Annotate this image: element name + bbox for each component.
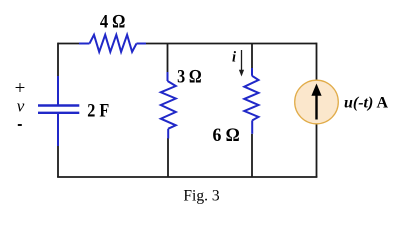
svg-text:i: i [232, 50, 236, 66]
wire 3ohm branch lower [167, 138, 169, 177]
wire right upper [316, 43, 318, 81]
wire 3ohm branch upper [167, 44, 169, 73]
current arrow i [239, 50, 244, 77]
svg-text:2 F: 2 F [87, 100, 109, 121]
wire right lower [316, 123, 318, 177]
resistor R2 3ohm [161, 72, 176, 139]
svg-text:3 Ω: 3 Ω [177, 66, 202, 87]
wire top-right segment [146, 43, 317, 45]
wire left upper [57, 43, 59, 76]
wire left lower [57, 146, 59, 177]
svg-text:4 Ω: 4 Ω [100, 11, 126, 32]
resistor R3 6ohm [244, 68, 258, 134]
svg-text:Fig. 3: Fig. 3 [183, 188, 219, 205]
resistor R1 4ohm [79, 35, 146, 52]
wire 6ohm branch upper [251, 44, 253, 69]
svg-text:6 Ω: 6 Ω [213, 125, 240, 146]
svg-text:v: v [17, 97, 25, 116]
wire top-left segment [58, 43, 79, 45]
svg-text:u(-t) A: u(-t) A [344, 95, 388, 112]
capacitor C1 2F [38, 76, 79, 146]
wire 6ohm branch lower [251, 134, 253, 177]
current source U1 [295, 80, 339, 124]
label minus [18, 124, 22, 126]
wire bottom [57, 176, 317, 178]
